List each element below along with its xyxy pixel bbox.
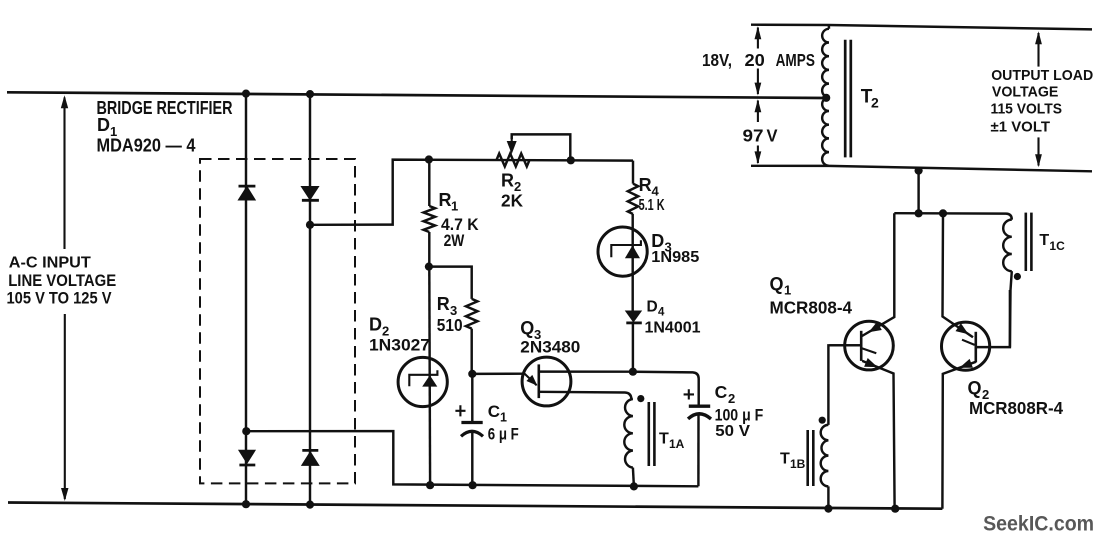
node R1 top junction <box>425 155 433 163</box>
wire T1A bottom <box>633 468 634 487</box>
svg-text:1A: 1A <box>669 437 685 451</box>
svg-text:D: D <box>97 115 110 135</box>
capacitor C2 plus sign <box>684 389 694 399</box>
inductor T1B phasing dot <box>819 417 826 424</box>
svg-text:T: T <box>1039 232 1049 249</box>
wire AC bottom line <box>8 503 942 509</box>
node bridge DC+ junction <box>306 221 314 229</box>
svg-text:115 VOLTS: 115 VOLTS <box>991 100 1063 117</box>
svg-text:D: D <box>647 298 658 315</box>
resistor R4 <box>628 184 638 214</box>
svg-text:97: 97 <box>743 126 764 146</box>
bridge rectifier D1 dashed outline <box>200 159 355 483</box>
wire DC+ elbow to R network <box>310 160 633 225</box>
svg-text:4: 4 <box>658 307 665 319</box>
svg-text:2: 2 <box>728 391 735 406</box>
svg-text:1C: 1C <box>1049 239 1065 253</box>
wire R1 bottom to R3 <box>429 267 472 299</box>
node bus-Q2 junction <box>939 209 947 217</box>
wire Q3 emitter lead <box>472 372 525 375</box>
wire Q3 B1 lead to T1A <box>539 392 632 399</box>
node Q1 cathode ground junction <box>891 505 899 513</box>
transformer T2 winding <box>827 25 830 29</box>
svg-text:1: 1 <box>451 199 458 214</box>
inductor T1C winding <box>1003 220 1012 272</box>
svg-text:Q: Q <box>520 318 534 338</box>
inductor T1A winding <box>624 399 633 468</box>
wire SCR anode bus <box>894 213 1012 219</box>
wire AC top line <box>7 92 825 98</box>
svg-text:C: C <box>715 382 728 402</box>
node T2 primary center tap <box>822 94 830 102</box>
node R3-C1-Q3 junction <box>468 370 476 378</box>
svg-text:100 μ F: 100 μ F <box>715 406 764 425</box>
svg-text:2N3480: 2N3480 <box>520 338 580 357</box>
node bridge DC- junction <box>242 427 250 435</box>
dimension arrow 97V <box>757 101 759 123</box>
svg-text:MCR808-4: MCR808-4 <box>770 298 853 318</box>
transformer T1C core <box>1025 213 1028 271</box>
zener diode D2 <box>398 357 447 406</box>
wire R4 column top <box>632 161 634 184</box>
wire R3 to C1 node <box>470 329 472 374</box>
svg-text:AMPS: AMPS <box>776 50 815 70</box>
output voltage dimension arrow <box>1037 33 1039 67</box>
svg-text:BRIDGE RECTIFIER: BRIDGE RECTIFIER <box>97 98 233 118</box>
wire C1 top <box>471 374 473 423</box>
dimension arrow 18V 20A <box>757 28 759 49</box>
wire bridge column right <box>309 94 311 505</box>
wire T2 bottom line <box>751 166 1092 172</box>
wire T1C bottom elbow <box>1010 271 1012 347</box>
node D2 ground junction <box>426 481 434 489</box>
svg-text:1: 1 <box>500 410 507 424</box>
resistor R3 <box>466 299 478 329</box>
zener diode D3 <box>598 227 647 276</box>
svg-text:R: R <box>501 170 514 190</box>
wire R2 wiper bracket <box>512 134 571 160</box>
capacitor C1 plus sign <box>455 405 465 416</box>
node bridge column right bottom <box>306 501 314 509</box>
svg-text:5.1 K: 5.1 K <box>639 197 665 214</box>
svg-text:±1 VOLT: ±1 VOLT <box>991 118 1051 135</box>
svg-text:D: D <box>369 315 382 335</box>
svg-text:510: 510 <box>437 315 463 335</box>
wire T2 top line <box>751 25 1092 30</box>
diode D1c <box>239 451 254 463</box>
wire Q2 anode riser <box>943 213 974 337</box>
transistor Q3 2N3480 <box>522 357 571 406</box>
wire D2 branch <box>428 267 431 486</box>
svg-text:A-C INPUT: A-C INPUT <box>9 254 91 271</box>
svg-text:T: T <box>659 430 669 447</box>
transformer T1A core <box>647 402 650 466</box>
svg-text:R: R <box>439 190 452 210</box>
wire DC- elbow to ground bus <box>246 431 698 486</box>
node R1 bottom junction <box>425 263 433 271</box>
svg-text:1B: 1B <box>790 457 806 471</box>
diode D1d <box>302 452 318 465</box>
node C1 ground junction <box>469 481 477 489</box>
scr Q1 MCR808-4 <box>845 321 894 370</box>
svg-text:OUTPUT LOAD: OUTPUT LOAD <box>991 67 1093 84</box>
capacitor C1 <box>461 421 482 424</box>
node T2 bottom junction <box>915 167 923 175</box>
node T1A ground junction <box>630 482 638 490</box>
node bridge column left top <box>242 90 250 98</box>
svg-text:R: R <box>639 175 652 195</box>
wire T1B top riser <box>828 345 861 425</box>
diode D4 <box>626 311 640 321</box>
svg-text:20: 20 <box>745 50 766 70</box>
svg-text:18V,: 18V, <box>702 50 732 70</box>
wire bridge column left <box>245 94 247 505</box>
resistor R1 <box>428 160 430 207</box>
capacitor C2 <box>689 405 710 408</box>
svg-text:Q: Q <box>968 378 982 398</box>
A-C input dimension arrow <box>63 98 65 250</box>
wire D4 to junction <box>632 323 634 372</box>
svg-text:R: R <box>437 294 450 314</box>
svg-text:D: D <box>651 231 664 251</box>
svg-text:MDA920 — 4: MDA920 — 4 <box>97 135 196 155</box>
svg-text:Q: Q <box>770 274 784 294</box>
svg-text:1N985: 1N985 <box>651 249 699 266</box>
inductor T1C phasing dot <box>1014 273 1021 280</box>
svg-text:1N3027: 1N3027 <box>369 336 430 355</box>
svg-text:50 V: 50 V <box>715 423 750 440</box>
inductor T1A phasing dot <box>637 395 644 402</box>
wire Q3 B2 lead to D4 node <box>539 370 633 373</box>
inductor T1B winding <box>821 425 829 487</box>
potentiometer R2 <box>497 154 530 167</box>
wire Q1 anode riser <box>862 213 894 336</box>
svg-text:6 μ F: 6 μ F <box>488 425 519 443</box>
svg-text:V: V <box>767 126 778 146</box>
wire T1B bottom <box>827 486 829 508</box>
wire Q2 gate lead <box>976 290 1010 347</box>
svg-text:VOLTAGE: VOLTAGE <box>992 84 1059 101</box>
svg-text:1N4001: 1N4001 <box>645 319 701 336</box>
node bridge column left bottom <box>242 500 250 508</box>
svg-text:C: C <box>488 402 500 421</box>
wire R4 to D3 <box>631 214 633 311</box>
transformer T2 core <box>844 40 847 158</box>
scr Q2 MCR808R-4 <box>942 322 990 370</box>
wire Q1 gate lead <box>829 344 861 346</box>
transformer T1B core <box>806 430 809 486</box>
diode D1b <box>302 187 318 199</box>
node D4-Q3-C2 junction <box>629 368 637 376</box>
diode D1a <box>239 187 255 200</box>
svg-text:MCR808R-4: MCR808R-4 <box>969 398 1063 418</box>
potentiometer R2 wiper arrow <box>511 134 513 141</box>
node R2 wiper junction <box>567 156 575 164</box>
svg-text:105 V TO 125 V: 105 V TO 125 V <box>7 290 112 308</box>
svg-text:SeekIC.com: SeekIC.com <box>983 512 1094 536</box>
svg-text:2: 2 <box>871 94 879 110</box>
wire junction to C2 top <box>633 372 699 407</box>
svg-text:2W: 2W <box>444 232 465 250</box>
svg-text:LINE VOLTAGE: LINE VOLTAGE <box>8 272 116 290</box>
node bridge column right top <box>306 90 314 98</box>
svg-text:4: 4 <box>652 183 660 198</box>
node T1B ground junction <box>824 505 832 513</box>
node bus-T2 junction <box>915 209 923 217</box>
wire T2 bottom to SCR bus <box>917 171 919 213</box>
svg-text:2K: 2K <box>501 191 523 211</box>
svg-text:T: T <box>780 450 790 467</box>
svg-text:1: 1 <box>784 282 791 297</box>
